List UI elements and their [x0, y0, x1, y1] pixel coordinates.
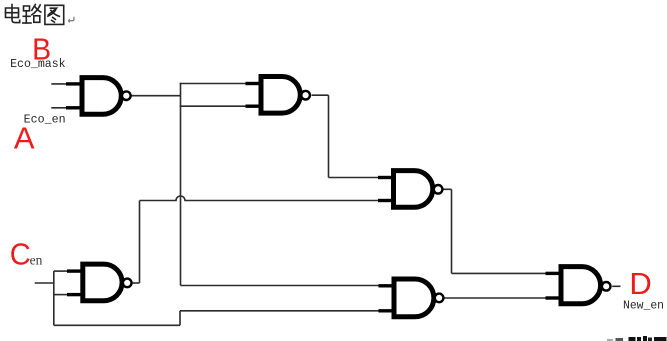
wire: N1 to U2 input b	[180, 105, 248, 107]
wire: U4 output vertical up	[139, 201, 141, 284]
svg-text:C: C	[10, 238, 31, 272]
wire: Cen bottom horizontal	[54, 324, 180, 326]
wire: U2 output vertical down	[328, 95, 330, 177]
nand gate U4 (input Cen, tied inputs)	[67, 264, 132, 301]
wire: U1 output to node N1	[131, 95, 180, 97]
wire: to U5 input b	[180, 310, 381, 312]
svg-text:Eco_mask: Eco_mask	[10, 57, 66, 71]
nand gate U5	[379, 279, 444, 317]
nand gate U6 (output New_en)	[546, 267, 611, 304]
wire: U4 output to U3 input b with hop over N1	[140, 196, 381, 201]
wire: U3 output right	[443, 188, 452, 190]
nand gate U3	[378, 171, 442, 208]
cropped bold text at bottom-right	[607, 336, 667, 341]
nand gate U2 (inverter, tied inputs)	[246, 77, 310, 114]
paragraph return mark	[68, 17, 74, 23]
wire: Cen to U4 input b	[54, 294, 69, 296]
title 电路图 (hand-drawn strokes)	[6, 5, 64, 25]
svg-text:en: en	[30, 252, 43, 267]
wire: Cen input lead	[35, 282, 54, 284]
wire: U6 output	[612, 285, 620, 287]
wire: to U6 input a	[452, 272, 549, 274]
wire: to U3 input a	[329, 177, 381, 179]
wire: U4 output right	[132, 282, 140, 284]
wire: Eco_en input lead to U1	[51, 107, 68, 109]
wire: N1 down to U5 input a	[181, 285, 382, 287]
svg-text:Eco_en: Eco_en	[24, 112, 66, 126]
wire: U5 output to U6 input b	[443, 297, 548, 299]
svg-text:New_en: New_en	[623, 299, 664, 313]
svg-text:D: D	[629, 266, 651, 301]
wire: Cen vertical tie	[53, 271, 55, 325]
图	[45, 5, 64, 24]
wire: U2 output right	[312, 94, 329, 96]
wire: node N1 vertical	[180, 83, 182, 286]
路	[24, 6, 30, 11]
wire: Cen to U4 input a	[54, 270, 69, 272]
wire: N1 to U2 input a	[180, 83, 248, 85]
wire: Eco_mask input lead to U1	[51, 83, 68, 85]
wire: bottom riser	[179, 311, 181, 326]
wire: U3 output vertical down	[451, 189, 453, 273]
nand gate U1 (inputs Eco_mask, Eco_en)	[66, 78, 131, 115]
电	[11, 5, 13, 18]
